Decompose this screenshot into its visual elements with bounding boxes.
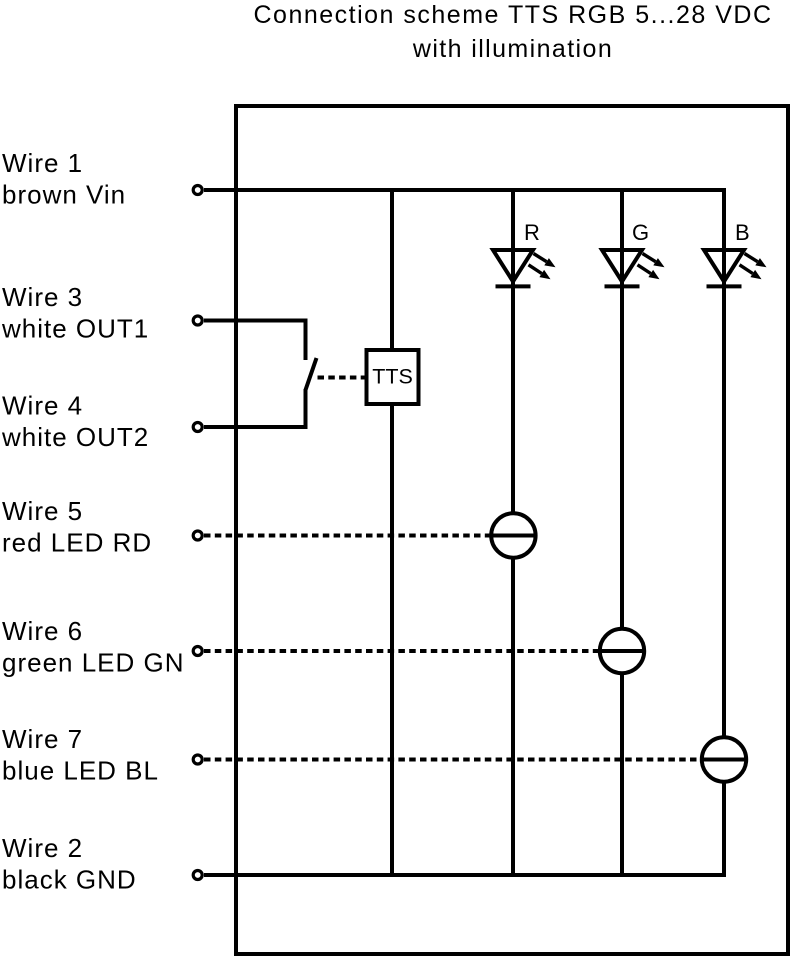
LED B symbol [704,250,767,286]
wire TTS column top [390,190,394,348]
svg-text:Connection scheme TTS RGB 5...: Connection scheme TTS RGB 5...28 VDC [253,1,772,29]
lamp/optocoupler G (circle) [598,629,645,673]
svg-text:red LED RD: red LED RD [2,528,152,558]
svg-text:B: B [735,220,750,245]
wire R column bottom [511,559,515,876]
TTS sensor box U1 [367,350,419,404]
svg-text:Wire 7: Wire 7 [2,724,83,754]
label Wire 2 black GND [2,833,137,895]
terminal Wire 6 [193,647,202,656]
terminal Wire 1 [193,186,202,195]
wire switch-TTS linkage (dashed) [318,376,365,380]
label Wire 1 brown Vin [2,148,126,210]
terminal Wire 5 [193,531,202,540]
wire TTS column bottom [390,406,394,875]
svg-text:white OUT2: white OUT2 [1,422,149,452]
LED R symbol [493,250,556,286]
svg-text:black GND: black GND [2,865,137,895]
svg-text:blue LED BL: blue LED BL [2,756,159,786]
LED G symbol [602,250,665,286]
wire switch upper contact [304,321,308,361]
label Wire 3 white OUT1 [1,282,149,344]
wire Wire 4 to switch [204,425,308,429]
svg-text:with illumination: with illumination [412,35,613,63]
terminal Wire 4 [193,423,202,432]
wire Wire 7 dashed to B lamp [204,758,701,762]
svg-text:Wire 2: Wire 2 [2,833,83,863]
terminal Wire 3 [193,316,202,325]
label Wire 5 red LED RD [2,496,152,558]
wire R column top [511,190,515,513]
wire G column top [620,190,624,628]
svg-text:brown Vin: brown Vin [2,180,126,210]
wire GND bus (Wire 2 row) [204,873,726,877]
svg-text:G: G [632,220,649,245]
svg-text:Wire 5: Wire 5 [2,496,83,526]
terminal Wire 7 [193,755,202,764]
switch S1 blade [306,358,317,390]
svg-text:R: R [524,220,540,245]
svg-text:green LED GN: green LED GN [2,648,185,678]
svg-text:Wire 6: Wire 6 [2,616,83,646]
wire Vin bus (Wire 1 row) [204,188,726,192]
lamp/optocoupler B (circle) [700,737,747,781]
wire G column bottom [620,674,624,875]
title [253,1,772,63]
wire Wire 5 dashed to R lamp [204,534,490,538]
enclosure box [236,106,788,954]
svg-text:white OUT1: white OUT1 [1,314,149,344]
label Wire 4 white OUT2 [1,391,149,453]
wire switch lower contact [304,389,308,429]
svg-text:TTS: TTS [372,365,413,389]
label Wire 6 green LED GN [2,616,185,678]
wire Wire 3 to switch [204,319,308,323]
svg-text:Wire 3: Wire 3 [2,282,83,312]
svg-text:Wire 1: Wire 1 [2,148,83,178]
svg-text:Wire 4: Wire 4 [2,391,83,421]
wire Wire 6 dashed to G lamp [204,649,599,653]
wire B column bottom [722,783,726,876]
label Wire 7 blue LED BL [2,724,159,786]
lamp/optocoupler R (circle) [490,513,537,557]
terminal Wire 2 [193,871,202,880]
wire B column top [722,188,726,737]
